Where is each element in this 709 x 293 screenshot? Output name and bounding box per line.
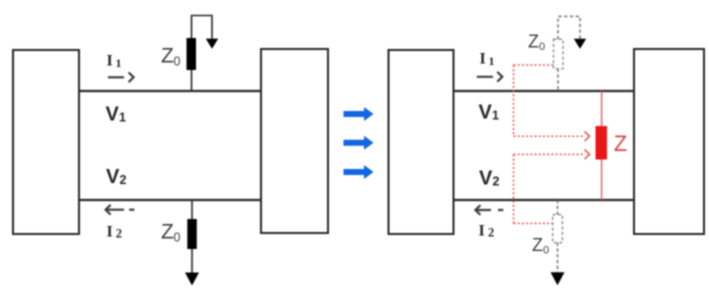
wire red dotted vertical (upper) — [513, 65, 515, 136]
svg-text:Z: Z — [614, 131, 627, 156]
ground arrow (bottom) — [185, 273, 199, 286]
wire Z0 top stub — [191, 70, 193, 91]
arrow blue 2 — [344, 136, 374, 150]
arrow blue 3 — [344, 165, 374, 179]
svg-text:V: V — [479, 168, 493, 190]
svg-text:2: 2 — [116, 227, 122, 241]
node path red dotted: bottom tap to bottom Z0 — [514, 222, 553, 224]
svg-text:2: 2 — [493, 175, 500, 189]
wire Z0' top hook (dashed) — [558, 16, 580, 39]
svg-text:0: 0 — [543, 244, 549, 256]
resistor Z0 (top, black body) — [187, 38, 197, 70]
svg-text:1: 1 — [489, 54, 495, 68]
ground arrow (bottom right) — [551, 272, 565, 285]
svg-text:Z: Z — [528, 32, 539, 52]
wire top line V1 — [79, 90, 261, 92]
wire Z0 bottom stub — [191, 200, 193, 219]
ground arrow (top right) — [574, 39, 586, 49]
svg-text:Z: Z — [161, 45, 174, 68]
wire red dotted vertical (lower) — [513, 154, 515, 223]
svg-text:0: 0 — [174, 55, 181, 69]
svg-text:1: 1 — [492, 109, 499, 123]
svg-text:2: 2 — [488, 226, 494, 240]
arrow I2 direction (dashed, pointing left) — [106, 205, 111, 215]
arrow red dotted to Z (upper) — [514, 135, 586, 137]
svg-text:Z: Z — [161, 221, 174, 244]
svg-text:V: V — [106, 103, 120, 125]
wire Z0' bottom dashed stub — [557, 200, 559, 215]
resistor Z (red body) — [596, 126, 608, 160]
arrow I1 direction — [108, 76, 124, 78]
arrow I2' direction (dashed, pointing left) — [475, 205, 480, 215]
wire Z0 bottom to ground — [191, 249, 193, 273]
port box P2 (right) — [261, 49, 328, 233]
port box P2' (right) — [634, 49, 704, 234]
wire Z0' bottom to ground (dashed) — [557, 243, 559, 272]
svg-text:I: I — [107, 53, 113, 70]
svg-text:0: 0 — [174, 231, 181, 245]
svg-text:V: V — [106, 166, 120, 188]
arrow I1' direction — [477, 76, 493, 78]
wire Z0 top hook — [192, 16, 213, 39]
svg-text:0: 0 — [539, 41, 545, 53]
svg-text:1: 1 — [119, 111, 126, 125]
svg-text:1: 1 — [116, 56, 122, 70]
arrow blue 1 — [344, 107, 374, 121]
svg-text:I: I — [479, 223, 485, 240]
wire top line V1' — [454, 90, 635, 92]
svg-text:V: V — [479, 102, 493, 124]
svg-text:Z: Z — [532, 235, 543, 255]
node path red dotted: top Z0 to V1 tap — [514, 64, 554, 66]
resistor Z0' bottom (dashed outline) — [553, 215, 563, 243]
wire bottom line V2' — [454, 199, 635, 201]
resistor Z0' top (dashed outline) — [554, 39, 564, 68]
wire Z branch (thin red vertical) — [601, 91, 603, 200]
ground arrow (top) — [206, 39, 218, 49]
port box P1 (left) — [13, 50, 79, 234]
port box P1' (left) — [389, 50, 454, 234]
arrow red dotted to Z (lower) — [514, 153, 586, 155]
svg-text:2: 2 — [120, 173, 127, 187]
svg-text:I: I — [480, 50, 486, 67]
resistor Z0 (bottom, black body) — [187, 219, 197, 249]
svg-text:I: I — [107, 224, 113, 241]
wire Z0' top dashed stub — [557, 69, 559, 91]
wire bottom line V2 — [79, 199, 261, 201]
